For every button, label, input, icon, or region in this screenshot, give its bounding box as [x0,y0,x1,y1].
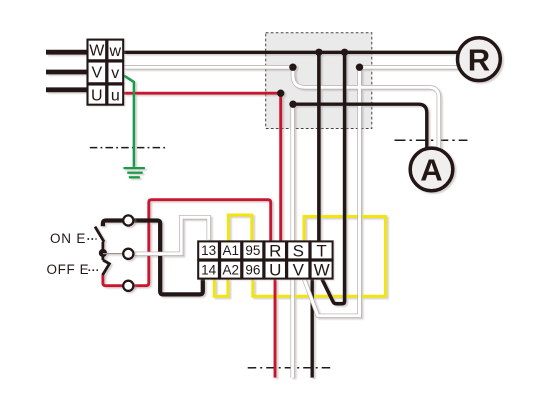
svg-text:A: A [420,153,442,188]
svg-text:96: 96 [245,263,260,278]
ground symbol [124,167,145,169]
yellow wire 96 to S loop [253,217,386,297]
white wire node D to R meter (fill) [360,66,460,69]
white wire node D down to V terminal (fill) [304,67,359,316]
OFF contact zigzag [103,260,110,275]
switch terminal circle bottom [123,281,133,291]
center line dash-dot bottom (motor leads) [248,367,334,369]
white wire node C curve to ammeter side (fill) [293,67,439,149]
svg-text:OFF E: OFF E [47,262,90,277]
A meter circle [410,148,453,191]
svg-text:A1: A1 [222,243,239,258]
svg-text:13: 13 [201,243,216,258]
switch terminal circle top [123,215,133,225]
svg-text:v: v [111,65,119,82]
R meter circle [458,38,501,81]
svg-text:S: S [293,241,304,260]
white wire v to node C (outline) [124,65,293,69]
white wire node D down to V terminal (outline) [304,67,359,316]
switch common junction dot [99,249,107,257]
svg-text:W: W [89,43,105,60]
svg-text:95: 95 [245,243,260,258]
svg-text:u: u [111,88,120,105]
black wire W terminal down to motor [311,279,314,377]
junction node E [277,90,284,97]
input feeder bar L3 [46,87,88,92]
relay/contactor terminal block [198,241,332,278]
junction node C [289,63,296,70]
red wire OFF switch to R terminal [103,200,271,286]
junction node F [289,101,296,108]
center line dash-dot left (near ground) [90,147,167,149]
ON contact lever [95,227,104,242]
input feeder bar L1 [46,50,88,55]
junction node A [315,49,322,56]
yellow jumper 14-A2 (bottom) [214,279,228,296]
junction node B [341,49,348,56]
switch terminal circle middle [123,249,133,259]
green earth wire from v [124,76,134,167]
switch wire stub from ON corner [103,221,128,227]
link common to middle terminal [103,253,124,255]
black wire node B down and hook to W terminal [322,52,345,303]
input feeder bar L2 [46,70,88,75]
white wire node F down to motor (outline) [290,104,294,377]
white wire node C curve to ammeter side (outline) [293,67,439,149]
junction node D [356,63,363,70]
white wire v to node C (fill) [124,66,293,69]
breaker terminal block W/V/U [88,40,124,105]
center line dash-dot right (near ammeter) [395,139,468,141]
svg-text:w: w [109,43,122,60]
white wire node D to R meter (outline) [360,65,460,69]
svg-text:T: T [316,241,326,260]
switch common segment [102,242,105,260]
svg-text:R: R [269,241,281,260]
red wire u to node E [124,92,281,95]
black wire ON switch to terminal 14 [128,221,203,295]
black wire node F to ammeter [293,104,427,149]
svg-text:ON E: ON E [50,231,86,246]
svg-text:14: 14 [201,263,217,278]
svg-text:U: U [269,261,281,280]
black wire node A down to T terminal [317,52,321,241]
yellow jumper A1-95 (top) [228,215,251,241]
contactor dashed enclosure [266,33,372,129]
svg-text:V: V [91,65,102,82]
svg-text:W: W [314,261,330,280]
white wire switch to terminal 13 (outline) [133,217,208,254]
white wire switch to terminal 13 (fill) [133,217,208,254]
svg-text:R: R [468,43,490,78]
svg-text:A2: A2 [222,263,239,278]
svg-text:U: U [91,87,103,104]
black phase wire w to R meter [124,51,458,54]
white wire node F down to motor (fill) [291,104,294,377]
svg-text:V: V [293,261,305,280]
red wire U terminal down to motor [274,279,277,377]
red wire node E down to R terminal [279,93,282,241]
